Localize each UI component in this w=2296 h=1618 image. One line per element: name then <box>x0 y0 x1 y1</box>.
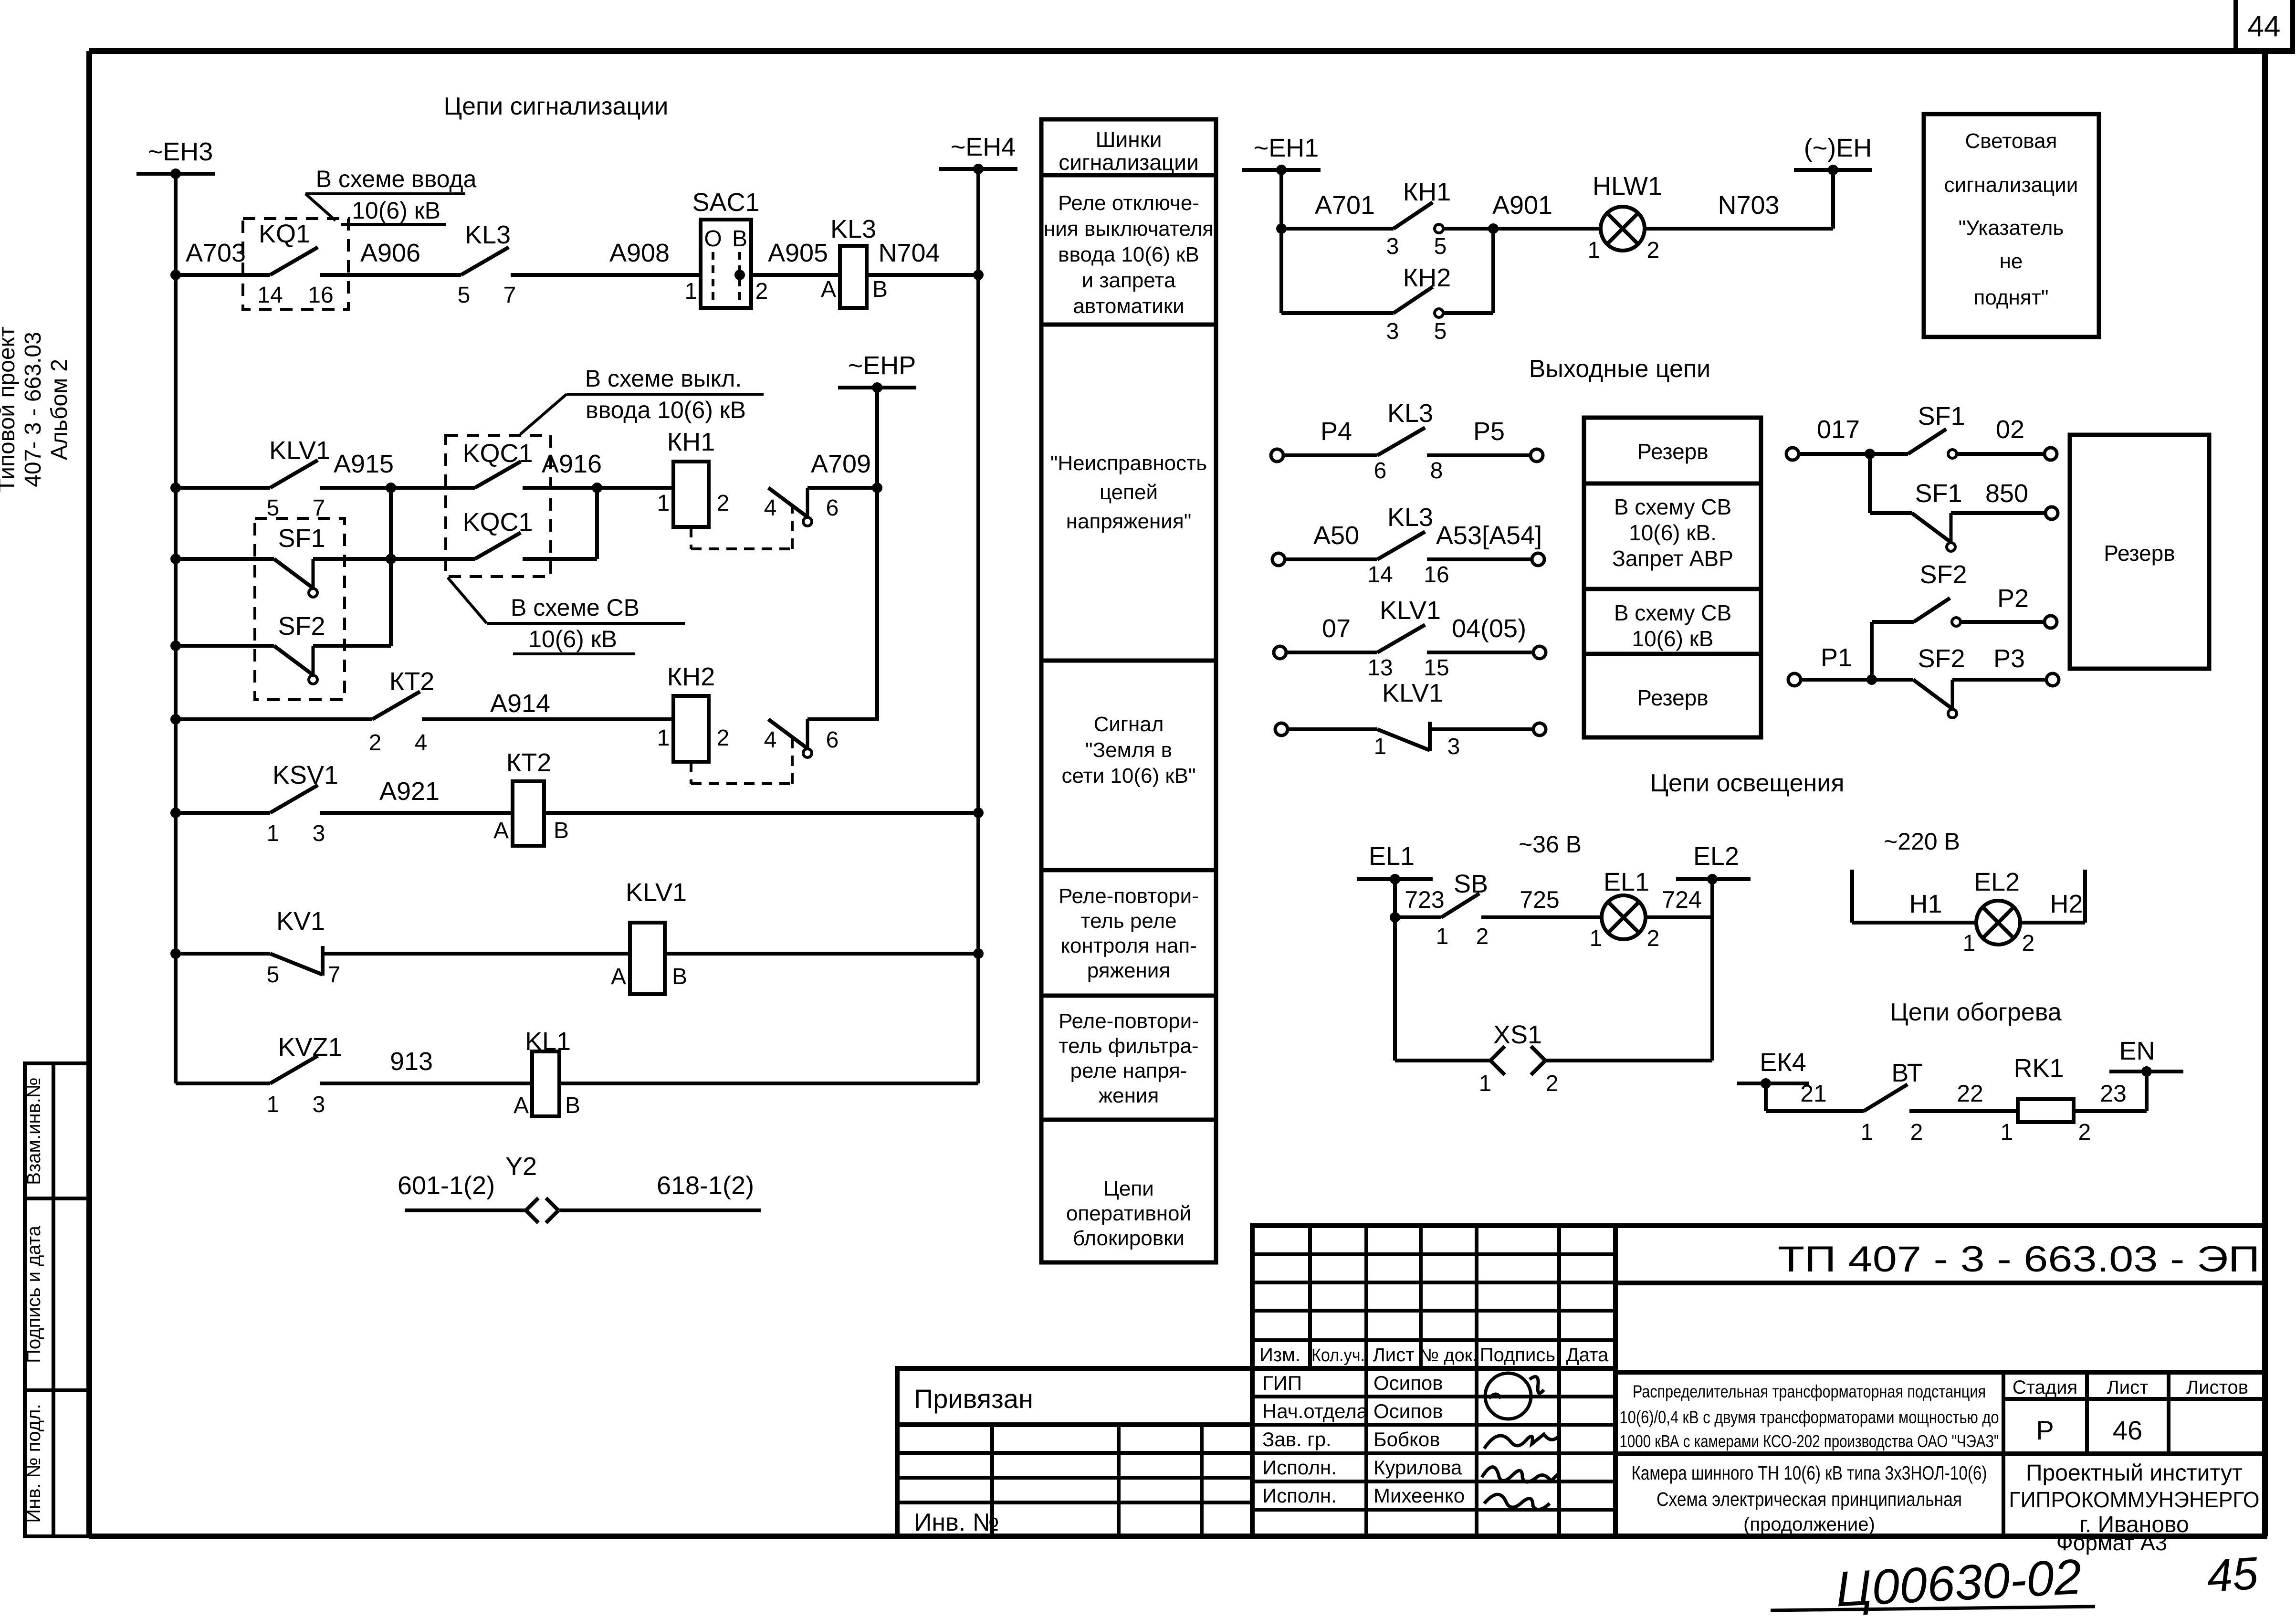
svg-text:10(6)/0,4 кВ с двумя трансформ: 10(6)/0,4 кВ с двумя трансформаторами мо… <box>1620 1408 1999 1427</box>
bus EN <box>2109 1037 2183 1077</box>
svg-text:и запрета: и запрета <box>1082 269 1176 292</box>
wire bus to SF1 <box>176 557 274 561</box>
node on EH4 bus KV1 row <box>973 948 984 959</box>
svg-text:Реле-повтори-: Реле-повтори- <box>1059 884 1199 908</box>
wire KLV1 coil to EH4 bus <box>665 952 978 956</box>
svg-text:А53[А54]: А53[А54] <box>1436 521 1542 550</box>
svg-text:2: 2 <box>717 725 730 751</box>
svg-text:А908: А908 <box>609 239 670 267</box>
svg-text:Р3: Р3 <box>1993 644 2025 673</box>
svg-text:А: А <box>514 1093 529 1118</box>
annex box Привязан <box>897 1368 1252 1536</box>
svg-text:13: 13 <box>1367 655 1393 681</box>
wire 220V left riser <box>1850 870 1854 923</box>
svg-text:А703: А703 <box>186 239 246 267</box>
svg-text:"Земля в: "Земля в <box>1085 738 1172 762</box>
svg-text:Кол.уч.: Кол.уч. <box>1311 1345 1365 1366</box>
svg-text:Н1: Н1 <box>1909 890 1942 918</box>
svg-text:KV1: KV1 <box>276 907 325 935</box>
wire A905 <box>751 273 840 277</box>
svg-text:KL3: KL3 <box>465 221 511 249</box>
wire KH2 branch <box>1281 311 1394 315</box>
wire A701 <box>1281 227 1394 231</box>
svg-text:сигнализации: сигнализации <box>1944 173 2078 197</box>
bus (~)EH <box>1794 134 1872 175</box>
handwritten inventory number <box>1771 1547 2260 1617</box>
wire EL1 drop <box>1393 879 1397 917</box>
node on ~EH4 bus <box>973 270 984 280</box>
wire 02 <box>1957 452 2044 456</box>
bus EL1 <box>1357 842 1433 884</box>
wire P1 <box>1801 678 1913 682</box>
bus ~EH1 <box>1242 134 1321 175</box>
svg-text:Лист: Лист <box>1373 1345 1415 1366</box>
svg-text:XS1: XS1 <box>1493 1020 1542 1049</box>
svg-text:KL3: KL3 <box>1387 399 1433 428</box>
svg-text:2: 2 <box>717 491 730 516</box>
svg-text:Р1: Р1 <box>1821 643 1852 672</box>
svg-text:В: В <box>672 964 687 989</box>
svg-text:~ЕНР: ~ЕНР <box>848 351 916 380</box>
svg-text:1: 1 <box>1963 931 1976 956</box>
svg-text:А709: А709 <box>811 450 871 478</box>
svg-text:RK1: RK1 <box>2013 1054 2064 1082</box>
svg-text:1: 1 <box>267 821 280 846</box>
svg-text:реле напря-: реле напря- <box>1070 1059 1187 1082</box>
bus EL2 <box>1676 842 1751 884</box>
svg-text:В: В <box>872 277 888 302</box>
wire KQC1 lower output <box>523 557 597 561</box>
svg-text:2: 2 <box>755 279 768 304</box>
svg-text:1: 1 <box>1479 1071 1492 1096</box>
box: Резерв reserve <box>2070 435 2209 669</box>
svg-text:Схема электрическая принципиал: Схема электрическая принципиальная <box>1656 1488 1962 1510</box>
node P1 <box>1866 674 1877 685</box>
svg-text:07: 07 <box>1322 614 1351 643</box>
svg-text:Резерв: Резерв <box>1637 439 1708 464</box>
svg-text:Лист: Лист <box>2107 1377 2149 1398</box>
wire: ~EH4 vertical bus <box>976 169 980 1083</box>
svg-text:"Указатель: "Указатель <box>1959 216 2064 240</box>
wire riser KH2 to A901 <box>1491 229 1495 313</box>
wire KT2 coil to EH4 bus <box>544 811 978 815</box>
svg-text:Запрет АВР: Запрет АВР <box>1612 546 1733 571</box>
svg-text:не: не <box>2000 250 2023 273</box>
svg-text:В схеме ввода: В схеме ввода <box>316 166 477 192</box>
svg-text:2: 2 <box>1910 1120 1923 1145</box>
svg-text:7: 7 <box>328 962 341 988</box>
relay contact KL3 output row A50-A53 <box>1272 553 1285 566</box>
wire bus to KV1 <box>176 952 270 956</box>
svg-text:Шинки: Шинки <box>1095 127 1162 152</box>
svg-text:4: 4 <box>764 727 777 753</box>
wire N704 <box>867 273 978 277</box>
svg-text:КТ2: КТ2 <box>389 667 434 696</box>
svg-text:2: 2 <box>1476 924 1489 949</box>
svg-text:913: 913 <box>390 1047 433 1076</box>
svg-text:EL1: EL1 <box>1369 842 1415 871</box>
wire A921 <box>320 811 513 815</box>
wire A914 <box>422 717 673 721</box>
svg-text:Резерв: Резерв <box>2104 541 2175 566</box>
svg-text:оперативной: оперативной <box>1066 1202 1191 1225</box>
wire EK4 drop <box>1764 1083 1768 1111</box>
svg-text:16: 16 <box>1424 562 1449 588</box>
svg-text:EN: EN <box>2119 1037 2155 1065</box>
svg-text:цепей: цепей <box>1100 481 1158 504</box>
svg-text:KQC1: KQC1 <box>462 439 533 468</box>
node SF1 row <box>170 554 181 564</box>
wire SF2 output <box>313 644 391 648</box>
wire EN riser <box>2145 1072 2149 1111</box>
svg-text:3: 3 <box>1447 734 1460 759</box>
svg-text:~ЕН1: ~ЕН1 <box>1254 134 1319 162</box>
svg-text:618-1(2): 618-1(2) <box>657 1171 754 1200</box>
svg-text:724: 724 <box>1662 886 1701 913</box>
svg-text:1: 1 <box>1436 924 1449 949</box>
wire: ~EH3 vertical bus <box>174 174 178 1083</box>
svg-text:Зав. гр.: Зав. гр. <box>1262 1428 1331 1450</box>
svg-text:21: 21 <box>1800 1080 1827 1107</box>
svg-text:10(6) кВ: 10(6) кВ <box>1632 626 1714 651</box>
bus ~EHP <box>838 351 916 393</box>
wire bus to KLV1 <box>176 486 270 490</box>
wire bus to KSV1 <box>176 811 270 815</box>
svg-text:А916: А916 <box>542 450 602 478</box>
wire 725 <box>1481 915 1602 919</box>
connector pin 1 <box>526 1198 538 1223</box>
svg-text:15: 15 <box>1424 655 1449 681</box>
svg-text:Михеенко: Михеенко <box>1373 1484 1465 1507</box>
relay contact KLV1 output row 07-04(05) <box>1274 646 1286 659</box>
terminal P3 <box>2046 673 2059 686</box>
wire to SF1 lower <box>1870 511 1912 515</box>
wire: ~EHP vertical bus <box>875 388 879 721</box>
node SB row <box>1390 912 1400 923</box>
wire bus to SF2 <box>176 644 274 648</box>
breaker contact SF1 <box>274 559 317 597</box>
wire 220V right riser <box>2083 870 2087 923</box>
svg-text:контроля нап-: контроля нап- <box>1060 934 1197 957</box>
svg-text:А: А <box>493 818 509 843</box>
svg-text:Листов: Листов <box>2186 1377 2248 1398</box>
node A916 <box>592 483 602 493</box>
svg-text:В: В <box>554 818 569 843</box>
relay contact KL3 output row P4-P5 <box>1271 449 1283 462</box>
svg-text:автоматики: автоматики <box>1073 294 1184 318</box>
svg-text:1: 1 <box>1861 1120 1874 1145</box>
svg-text:2: 2 <box>1546 1071 1559 1096</box>
svg-text:ВТ: ВТ <box>1891 1059 1922 1087</box>
node row KLV1 <box>170 483 181 493</box>
svg-text:SF1: SF1 <box>1918 402 1965 431</box>
svg-text:Цепи освещения: Цепи освещения <box>1650 769 1845 797</box>
svg-text:КН2: КН2 <box>1403 263 1451 292</box>
node KV1 row <box>170 948 181 959</box>
wire EL2 vertical <box>1710 879 1714 1061</box>
svg-text:тель фильтра-: тель фильтра- <box>1059 1034 1198 1058</box>
svg-text:7: 7 <box>503 283 516 308</box>
node KSV1 row <box>170 808 181 818</box>
svg-text:3: 3 <box>313 821 325 846</box>
svg-text:Резерв: Резерв <box>1637 685 1708 710</box>
svg-text:KVZ1: KVZ1 <box>278 1033 342 1061</box>
svg-text:ТП 407 - 3 - 663.03 - ЭП: ТП 407 - 3 - 663.03 - ЭП <box>1778 1239 2260 1280</box>
wire 724 <box>1646 915 1712 919</box>
svg-text:N703: N703 <box>1718 191 1779 220</box>
svg-text:ния выключателя: ния выключателя <box>1044 217 1214 241</box>
svg-text:Инв. № подл.: Инв. № подл. <box>23 1404 44 1523</box>
wire A916 <box>523 486 673 490</box>
dashed box KQC1 <box>446 435 551 577</box>
svg-text:Бобков: Бобков <box>1373 1428 1440 1450</box>
svg-text:Камера шинного ТН 10(6) кВ тип: Камера шинного ТН 10(6) кВ типа 3х3НОЛ-1… <box>1632 1462 1987 1484</box>
svg-text:А: А <box>611 964 626 989</box>
svg-text:SF2: SF2 <box>278 612 325 641</box>
wire KH2 out <box>1443 311 1493 315</box>
table: signal bus descriptions <box>1041 119 1216 1262</box>
node A703 <box>170 270 181 280</box>
wire: riser to A916 <box>595 488 599 559</box>
svg-text:~ЕН3: ~ЕН3 <box>148 137 213 166</box>
wire P2 <box>1961 620 2044 624</box>
svg-text:1000 кВА с камерами КСО-202 пр: 1000 кВА с камерами КСО-202 производства… <box>1620 1431 1999 1451</box>
svg-text:SF2: SF2 <box>1919 560 1967 589</box>
svg-text:16: 16 <box>308 283 333 308</box>
node on EH4 bus <box>973 808 984 818</box>
wire SF group riser <box>1868 454 1872 513</box>
svg-text:407- 3 - 663.03: 407- 3 - 663.03 <box>21 332 46 487</box>
svg-text:SB: SB <box>1454 870 1488 898</box>
svg-text:сети 10(6) кВ": сети 10(6) кВ" <box>1061 764 1195 788</box>
wire KL1 coil to EH4 bus <box>559 1082 978 1085</box>
wire bus to KT2 <box>176 717 270 721</box>
svg-text:Сигнал: Сигнал <box>1094 713 1164 736</box>
svg-text:(~)ЕН: (~)ЕН <box>1804 134 1872 162</box>
svg-text:SF2: SF2 <box>1918 644 1965 673</box>
wire 723 <box>1395 915 1441 919</box>
node SF2 row <box>170 641 181 651</box>
relay contact KH2 (4-6) <box>768 719 812 757</box>
svg-text:Р5: Р5 <box>1473 417 1505 446</box>
svg-text:10(6) кВ.: 10(6) кВ. <box>1629 520 1717 545</box>
svg-text:А50: А50 <box>1313 521 1359 550</box>
svg-text:1: 1 <box>657 491 670 516</box>
svg-text:О: О <box>704 226 722 252</box>
svg-text:8: 8 <box>1430 458 1443 483</box>
wire 23 <box>2074 1109 2147 1113</box>
svg-text:В: В <box>565 1093 580 1118</box>
left stamp boxes <box>25 1063 89 1536</box>
svg-text:(продолжение): (продолжение) <box>1743 1514 1875 1535</box>
svg-text:KSV1: KSV1 <box>273 761 338 789</box>
svg-text:В схему СВ: В схему СВ <box>1614 600 1731 625</box>
node KH1 row <box>1276 223 1287 234</box>
svg-text:Привязан: Привязан <box>914 1384 1033 1414</box>
svg-text:Y2: Y2 <box>505 1152 537 1181</box>
svg-text:02: 02 <box>1996 415 2024 444</box>
leader note: В схеме СВ 10(6) кВ <box>448 578 685 654</box>
svg-text:"Неисправность: "Неисправность <box>1050 452 1207 475</box>
svg-text:5: 5 <box>1434 319 1447 344</box>
wire KV1 to KLV1 coil <box>323 952 630 956</box>
svg-text:N704: N704 <box>878 239 940 267</box>
svg-text:SF1: SF1 <box>1915 479 1962 508</box>
breaker contact SF2 <box>274 646 317 684</box>
svg-text:2: 2 <box>1647 238 1660 263</box>
svg-text:2: 2 <box>2078 1120 2091 1145</box>
title block: revision table grid <box>1252 1226 2265 1536</box>
svg-text:Проектный институт: Проектный институт <box>2026 1460 2243 1486</box>
svg-text:10(6) кВ: 10(6) кВ <box>352 197 440 224</box>
svg-text:EL1: EL1 <box>1604 868 1649 896</box>
bus ~EH3 <box>136 137 215 179</box>
node A901 <box>1488 223 1499 234</box>
dashed linkage KH1 <box>691 507 792 549</box>
svg-text:КН2: КН2 <box>667 662 715 691</box>
svg-text:KL3: KL3 <box>1387 503 1433 532</box>
svg-text:Осипов: Осипов <box>1373 1372 1443 1394</box>
bus ~EH4 <box>939 133 1017 174</box>
leader note: В схеме выкл. ввода 10(6) кВ <box>520 365 764 434</box>
svg-text:жения: жения <box>1099 1084 1159 1107</box>
svg-text:46: 46 <box>2113 1415 2142 1445</box>
wire SB column down <box>1393 917 1397 1061</box>
svg-text:Изм.: Изм. <box>1259 1345 1300 1366</box>
svg-text:~ЕН4: ~ЕН4 <box>951 133 1016 161</box>
svg-text:Альбом 2: Альбом 2 <box>47 359 72 460</box>
svg-text:Цепи: Цепи <box>1103 1177 1153 1200</box>
svg-text:КТ2: КТ2 <box>506 748 551 777</box>
svg-text:1: 1 <box>685 279 698 304</box>
svg-text:А906: А906 <box>360 239 420 267</box>
svg-text:ГИП: ГИП <box>1262 1372 1302 1394</box>
svg-text:1: 1 <box>1374 734 1387 759</box>
svg-text:Р2: Р2 <box>1997 584 2029 613</box>
svg-text:Исполн.: Исполн. <box>1262 1456 1337 1479</box>
svg-text:04(05): 04(05) <box>1452 614 1526 643</box>
svg-text:1: 1 <box>267 1092 280 1117</box>
svg-text:KLV1: KLV1 <box>1380 596 1441 625</box>
svg-text:ЕК4: ЕК4 <box>1760 1048 1806 1077</box>
svg-text:3: 3 <box>313 1092 325 1117</box>
wire 913 <box>320 1082 532 1085</box>
svg-text:А: А <box>821 277 836 302</box>
svg-text:ГИПРОКОММУНЭНЕРГО: ГИПРОКОММУНЭНЕРГО <box>2009 1487 2260 1512</box>
svg-text:2: 2 <box>1647 926 1660 951</box>
svg-text:KLV1: KLV1 <box>626 878 687 907</box>
wire 017 <box>1799 452 1908 456</box>
svg-text:601-1(2): 601-1(2) <box>398 1171 495 1200</box>
svg-text:Типовой проект: Типовой проект <box>0 326 20 493</box>
annex grid <box>897 1425 1252 1536</box>
wire 601-1(2) <box>405 1208 526 1212</box>
wire A915 <box>320 486 475 490</box>
svg-text:А901: А901 <box>1492 191 1552 220</box>
signature doodles <box>1482 1373 1558 1510</box>
svg-text:В схеме выкл.: В схеме выкл. <box>585 365 742 392</box>
svg-text:Выходные цепи: Выходные цепи <box>1529 355 1710 383</box>
XS1 plug <box>1531 1046 1545 1075</box>
svg-text:поднят": поднят" <box>1974 286 2049 309</box>
svg-text:44: 44 <box>2248 10 2281 43</box>
wire N703 <box>1645 227 1833 231</box>
svg-text:ряжения: ряжения <box>1087 959 1170 982</box>
wire KH2 to EHP bus <box>807 717 877 721</box>
svg-text:1: 1 <box>657 725 670 751</box>
wire P3 <box>1952 678 2046 682</box>
wire A908 <box>511 273 701 277</box>
wire H2 <box>2020 921 2085 925</box>
svg-text:23: 23 <box>2100 1080 2127 1107</box>
node A915 <box>386 483 396 493</box>
terminal 850 <box>2045 507 2058 519</box>
svg-text:Р: Р <box>2036 1415 2054 1445</box>
svg-text:№ док.: № док. <box>1419 1345 1478 1366</box>
svg-text:14: 14 <box>1367 562 1393 588</box>
wire: A915 branch vertical <box>389 488 393 646</box>
svg-text:Подпись: Подпись <box>1480 1345 1555 1366</box>
node SF group top <box>1865 449 1875 459</box>
svg-text:ввода 10(6) кВ: ввода 10(6) кВ <box>586 397 746 423</box>
wire SF1 to branch <box>313 557 391 561</box>
svg-text:10(6) кВ: 10(6) кВ <box>528 626 617 652</box>
svg-text:Световая: Световая <box>1965 129 2057 153</box>
wire A703 <box>176 273 270 277</box>
XS1 socket <box>1490 1046 1505 1075</box>
svg-text:А905: А905 <box>768 239 828 267</box>
svg-text:KQC1: KQC1 <box>462 508 533 536</box>
svg-text:Инв. №: Инв. № <box>914 1509 999 1536</box>
dashed linkage KH2 <box>691 739 792 784</box>
relay contact KLV1 output row 1-3 NC <box>1275 723 1288 735</box>
switch SAC1 <box>685 188 768 308</box>
svg-text:EL2: EL2 <box>1974 868 2020 896</box>
wire 618-1(2) <box>559 1208 761 1212</box>
svg-text:Осипов: Осипов <box>1373 1400 1443 1422</box>
svg-text:Реле-повтори-: Реле-повтори- <box>1059 1009 1199 1033</box>
wire H1 <box>1852 921 1976 925</box>
wire riser to (~)EH <box>1831 170 1835 229</box>
svg-text:А914: А914 <box>490 689 550 718</box>
svg-text:KLV1: KLV1 <box>269 436 330 465</box>
revision table thin grid <box>1252 1226 1615 1536</box>
svg-text:напряжения": напряжения" <box>1066 510 1192 533</box>
svg-text:6: 6 <box>826 495 839 521</box>
svg-text:14: 14 <box>257 283 283 308</box>
svg-text:Цепи сигнализации: Цепи сигнализации <box>444 93 669 120</box>
svg-text:723: 723 <box>1405 886 1444 913</box>
svg-text:1: 1 <box>1590 926 1603 951</box>
wire 850 <box>1951 511 2045 515</box>
stage/sheet header <box>2003 1372 2265 1536</box>
svg-text:сигнализации: сигнализации <box>1059 150 1198 175</box>
svg-text:HLW1: HLW1 <box>1593 172 1662 200</box>
wire 22 <box>1909 1109 2018 1113</box>
svg-text:Распределительная трансформато: Распределительная трансформаторная подст… <box>1633 1382 1986 1401</box>
svg-text:6: 6 <box>1374 458 1387 483</box>
wire node to KQC1 lower <box>391 557 475 561</box>
svg-text:Стадия: Стадия <box>2013 1377 2077 1398</box>
node A709 <box>872 483 882 493</box>
box: Световая сигнализация Указатель не поднят <box>1924 114 2099 337</box>
svg-text:ввода 10(6) кВ: ввода 10(6) кВ <box>1058 243 1199 266</box>
wire to A901 <box>1443 227 1601 231</box>
table: output destinations <box>1584 418 1761 737</box>
svg-text:Цепи обогрева: Цепи обогрева <box>1890 998 2062 1026</box>
svg-text:1: 1 <box>2001 1120 2013 1145</box>
svg-text:017: 017 <box>1817 415 1860 444</box>
